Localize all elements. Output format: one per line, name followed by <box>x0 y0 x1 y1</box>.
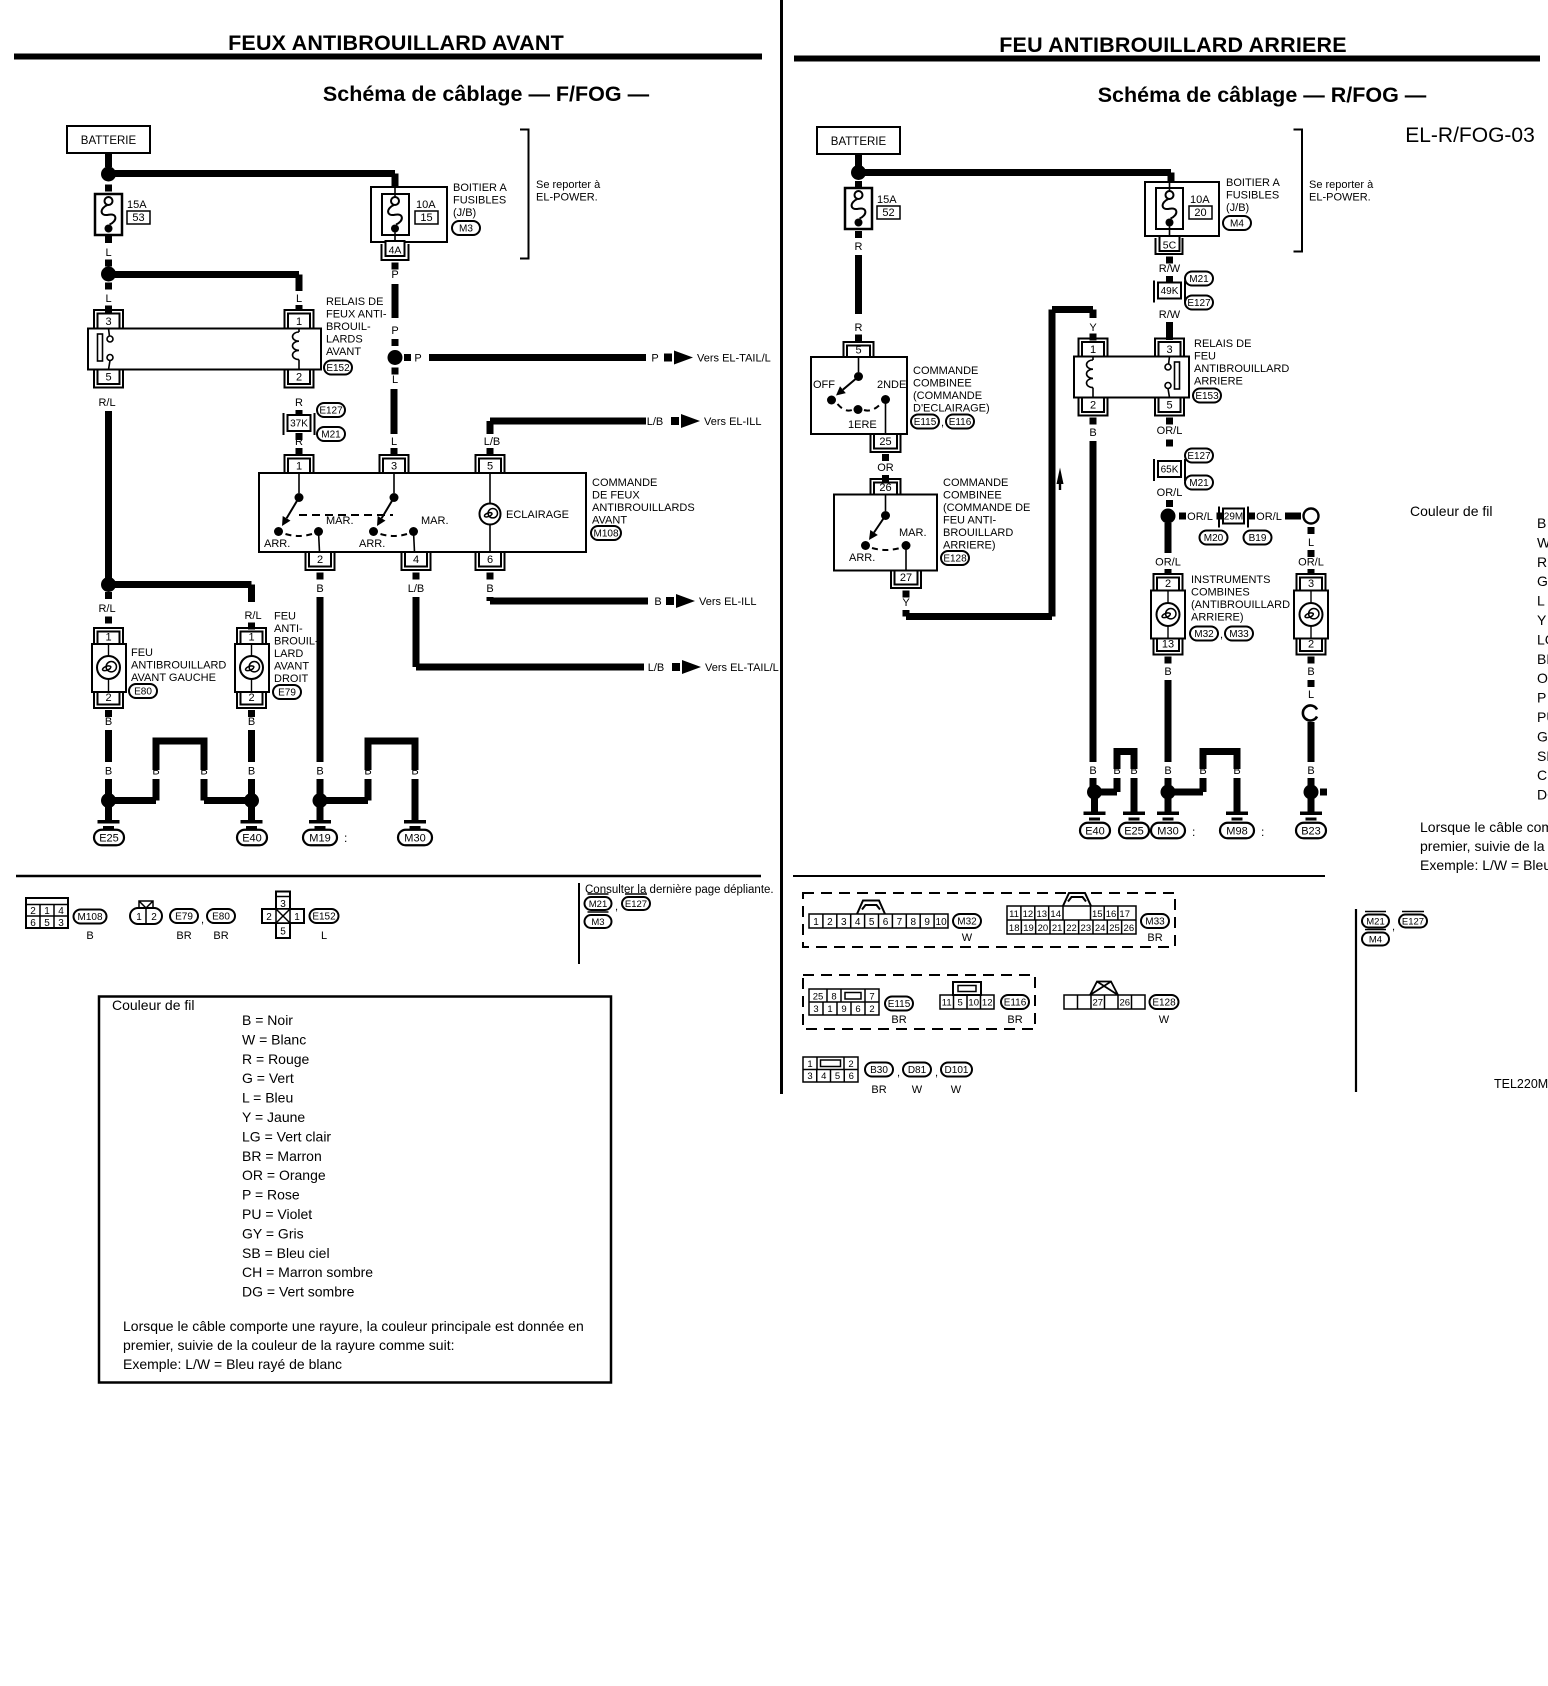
svg-text:15: 15 <box>420 212 432 224</box>
svg-text:M21: M21 <box>321 430 341 441</box>
svg-text:premier, suivie de la couleur: premier, suivie de la couleur de la ray <box>1420 838 1548 854</box>
svg-text:1: 1 <box>827 1004 832 1015</box>
svg-text:3: 3 <box>391 461 397 473</box>
svg-text:3: 3 <box>813 1004 818 1015</box>
svg-text:Schéma de câblage — F/FOG —: Schéma de câblage — F/FOG — <box>323 82 650 106</box>
svg-text:EL-POWER.: EL-POWER. <box>536 192 598 204</box>
svg-text:10: 10 <box>968 998 979 1009</box>
svg-text:2: 2 <box>848 1059 853 1070</box>
svg-text:M32: M32 <box>1194 629 1214 640</box>
svg-text:M108: M108 <box>593 529 618 540</box>
svg-text:11: 11 <box>942 998 952 1009</box>
ground B23 <box>1308 792 1315 812</box>
svg-text:P: P <box>391 269 398 281</box>
lamp E79 FEU ANTIBROUILLARD AVANT DROIT <box>237 628 266 644</box>
svg-text:8: 8 <box>911 917 917 928</box>
svg-text:FEU ANTI-: FEU ANTI- <box>943 515 997 527</box>
legend box Couleur de fil <box>99 997 611 1383</box>
svg-text:R/L: R/L <box>98 603 115 615</box>
svg-text:6: 6 <box>855 1004 860 1015</box>
svg-text:,: , <box>615 901 618 913</box>
svg-text:B: B <box>411 766 418 778</box>
svg-text:OR/L: OR/L <box>1155 557 1181 569</box>
connector view M32 <box>809 914 948 928</box>
connector pin 25 <box>871 434 901 452</box>
svg-text:DG = Vert sombre: DG = Vert sombre <box>242 1284 355 1300</box>
svg-text::: : <box>1261 825 1264 839</box>
svg-text:R/L: R/L <box>244 610 261 622</box>
svg-text:3: 3 <box>105 316 111 328</box>
page divider <box>780 0 783 1094</box>
svg-text:Exemple: L/W = Bleu rayé de bl: Exemple: L/W = Bleu rayé de blanc <box>123 1356 342 1372</box>
svg-text:1: 1 <box>813 917 819 928</box>
reference bracket right Se reporter a EL-POWER <box>1294 130 1303 252</box>
svg-text:15A: 15A <box>877 194 897 206</box>
svg-text:BROUIL-: BROUIL- <box>326 321 371 333</box>
connector view dashed box E115 E116 <box>803 975 1035 1029</box>
svg-text:R = Rouge: R = Rouge <box>242 1051 310 1067</box>
svg-text:Couleur de fil: Couleur de fil <box>1410 503 1493 519</box>
connector view E152 <box>276 892 290 939</box>
wire R/L to right lamp <box>115 581 252 588</box>
svg-text:B23: B23 <box>1301 825 1321 837</box>
svg-text:BOITIER A: BOITIER A <box>453 182 507 194</box>
svg-text:MAR.: MAR. <box>326 515 354 527</box>
svg-text:E79: E79 <box>278 688 296 699</box>
svg-text:CH =: CH = <box>1537 767 1548 783</box>
ground M30 right <box>1161 785 1176 800</box>
node battery junction right <box>851 165 866 180</box>
svg-text:5: 5 <box>855 345 861 357</box>
svg-text:ANTI-: ANTI- <box>274 623 303 635</box>
lamp cluster INSTRUMENTS COMBINES M32 M33 left bulb <box>1154 574 1183 591</box>
svg-text:29M: 29M <box>1224 512 1243 523</box>
svg-text:L = Bleu: L = Bleu <box>242 1090 293 1106</box>
separator rule right <box>793 875 1325 877</box>
connector view E128 <box>1064 995 1145 1009</box>
wire battery feed to fuse 10A <box>115 170 395 177</box>
svg-text:E127: E127 <box>1187 298 1211 309</box>
svg-text:FEU: FEU <box>131 647 153 659</box>
svg-text:26: 26 <box>1120 998 1131 1009</box>
svg-text:Exemple: L/W = Bleu rayé de bl: Exemple: L/W = Bleu rayé de blanc <box>1420 857 1548 873</box>
svg-text:COMMANDE: COMMANDE <box>943 477 1008 489</box>
svg-text:LG =: LG = <box>1537 631 1548 647</box>
svg-text:(COMMANDE: (COMMANDE <box>913 390 982 402</box>
svg-text:1: 1 <box>248 632 254 644</box>
svg-text:E115: E115 <box>914 417 937 428</box>
svg-text:B: B <box>86 930 93 942</box>
svg-text:COMMANDE: COMMANDE <box>913 365 978 377</box>
svg-text:L =: L = <box>1537 593 1548 609</box>
svg-text:OR/L: OR/L <box>1157 487 1183 499</box>
svg-text:14: 14 <box>1050 909 1061 920</box>
svg-text:2: 2 <box>1165 578 1171 590</box>
node P junction <box>388 350 403 365</box>
svg-text:R/W: R/W <box>1159 263 1181 275</box>
wire L OR/L down to right lamp pin 3 <box>1308 527 1315 534</box>
svg-text:TEL220M: TEL220M <box>1494 1077 1548 1091</box>
svg-text:16: 16 <box>1106 909 1117 920</box>
svg-text:BATTERIE: BATTERIE <box>81 135 137 147</box>
svg-text:10A: 10A <box>416 199 436 211</box>
node L junction <box>101 267 116 282</box>
battery B2 BATTERIE <box>817 127 900 154</box>
svg-text:(J/B): (J/B) <box>453 207 476 219</box>
svg-text:R =: R = <box>1537 554 1548 570</box>
svg-text:SB =: SB = <box>1537 748 1548 764</box>
svg-text:Y: Y <box>902 597 910 609</box>
svg-text:1ERE: 1ERE <box>848 419 877 431</box>
svg-text:B: B <box>316 766 323 778</box>
svg-text:,: , <box>935 1067 938 1079</box>
svg-text:M20: M20 <box>1204 533 1224 544</box>
wire ground bridge E40-E25 right <box>1098 789 1117 796</box>
svg-text:W: W <box>951 1084 962 1096</box>
svg-text:FEU ANTIBROUILLARD ARRIERE: FEU ANTIBROUILLARD ARRIERE <box>999 33 1347 57</box>
wire ground bridge E25-E40 <box>112 797 156 804</box>
svg-text:GY = Gris: GY = Gris <box>242 1225 304 1241</box>
svg-text:,: , <box>1220 629 1223 641</box>
svg-text:RELAIS DE: RELAIS DE <box>1194 338 1251 350</box>
connector 4A below J/B <box>382 244 409 260</box>
connector view dashed box M32 M33 <box>803 893 1175 947</box>
fuse F1 15A 53 <box>95 194 122 235</box>
svg-text:7: 7 <box>869 992 874 1003</box>
mechanical link dashed <box>299 514 393 516</box>
svg-text:CH = Marron sombre: CH = Marron sombre <box>242 1264 373 1280</box>
connector view M33 <box>1007 906 1136 934</box>
wire M108 pin2 B down to ground M19 <box>317 573 324 580</box>
svg-text:R: R <box>855 241 863 253</box>
reference bracket Se reporter a EL-POWER <box>520 130 529 259</box>
svg-text:1: 1 <box>44 906 50 917</box>
separator rule left <box>16 875 761 878</box>
svg-text:9: 9 <box>924 917 930 928</box>
wire OR/L to 29M and B19 connector <box>1179 513 1186 520</box>
svg-text:B: B <box>654 596 661 608</box>
switch S3 COMMANDE FEU ANTIBROUILLARD ARRIERE E128 <box>834 495 937 571</box>
svg-text:AVANT: AVANT <box>274 661 309 673</box>
svg-text:ARRIERE): ARRIERE) <box>943 540 996 552</box>
svg-text:B: B <box>1089 765 1096 777</box>
svg-text:3: 3 <box>1166 344 1172 356</box>
switch lever A <box>298 473 300 493</box>
svg-text:5: 5 <box>869 917 875 928</box>
wire ground bridge M30-M98 right <box>1172 789 1203 796</box>
svg-text:E127: E127 <box>1187 451 1211 462</box>
svg-text:2: 2 <box>317 554 323 566</box>
svg-text:OR/L: OR/L <box>1157 425 1183 437</box>
svg-text:M21: M21 <box>589 899 607 910</box>
svg-text:ANTIBROUILLARDS: ANTIBROUILLARDS <box>592 502 695 514</box>
svg-text:COMBINEE: COMBINEE <box>943 490 1002 502</box>
wire ground bridge M19-M30 <box>323 797 368 804</box>
svg-text:2: 2 <box>827 917 833 928</box>
svg-text:E115: E115 <box>888 999 911 1010</box>
svg-text:R/L: R/L <box>98 397 115 409</box>
svg-text:E127: E127 <box>1402 916 1424 927</box>
wire relay pin2 B down to ground E40 right <box>1090 418 1097 425</box>
svg-text:B: B <box>1233 765 1240 777</box>
svg-text:DG =: DG = <box>1537 787 1548 803</box>
svg-text:3: 3 <box>807 1071 812 1082</box>
wire right lamp pin2 B L to connector and ground B23 <box>1308 657 1315 664</box>
wire junction to fuse 15A <box>105 185 112 192</box>
svg-text:21: 21 <box>1052 923 1063 934</box>
lamp E80 FEU ANTIBROUILLARD AVANT GAUCHE <box>94 628 123 644</box>
svg-text:17: 17 <box>1119 909 1130 920</box>
svg-text:AVANT GAUCHE: AVANT GAUCHE <box>131 672 216 684</box>
svg-text:2: 2 <box>248 692 254 704</box>
svg-text:M4: M4 <box>1369 934 1382 945</box>
svg-text:E25: E25 <box>99 832 119 844</box>
svg-text::: : <box>1192 825 1195 839</box>
svg-text:INSTRUMENTS: INSTRUMENTS <box>1191 574 1270 586</box>
svg-text:M21: M21 <box>1189 478 1209 489</box>
svg-text:FEUX ANTIBROUILLARD AVANT: FEUX ANTIBROUILLARD AVANT <box>228 31 564 55</box>
wire pin25 OR to pin26 <box>882 454 889 461</box>
svg-text:2: 2 <box>30 906 36 917</box>
svg-text:B: B <box>1164 765 1171 777</box>
svg-text:LARDS: LARDS <box>326 334 363 346</box>
wire junction to fuse 15A right <box>855 181 862 188</box>
svg-text:7: 7 <box>897 917 903 928</box>
ground E25 <box>101 793 116 808</box>
svg-text:L: L <box>105 293 111 305</box>
svg-text:M3: M3 <box>591 917 604 928</box>
svg-text:E40: E40 <box>1085 825 1105 837</box>
svg-text:Lorsque le câble comporte une: Lorsque le câble comporte une rayure <box>1420 819 1548 835</box>
svg-text:R: R <box>295 397 303 409</box>
svg-text:W: W <box>912 1084 923 1096</box>
svg-text:E127: E127 <box>319 406 343 417</box>
svg-text:B: B <box>486 583 493 595</box>
fuse F3 15A 52 <box>845 188 872 229</box>
svg-text:1: 1 <box>296 461 302 473</box>
svg-text:Y: Y <box>1089 322 1097 334</box>
svg-text:25: 25 <box>813 992 824 1003</box>
svg-text:(COMMANDE DE: (COMMANDE DE <box>943 502 1030 514</box>
svg-text:BR = Marron: BR = Marron <box>242 1148 322 1164</box>
svg-text:FEU: FEU <box>274 611 296 623</box>
svg-text:ARR.: ARR. <box>359 538 385 550</box>
svg-text:SB = Bleu ciel: SB = Bleu ciel <box>242 1245 330 1261</box>
svg-text:R: R <box>295 436 303 448</box>
svg-text:E128: E128 <box>1152 998 1176 1009</box>
svg-text:BR =: BR = <box>1537 651 1548 667</box>
svg-text:M33: M33 <box>1229 629 1249 640</box>
wire 4A to P junction, labels P <box>392 263 399 270</box>
wire M108 pin6 B to EL-ILL arrow <box>487 573 494 580</box>
svg-text:E40: E40 <box>242 832 262 844</box>
wire battery to junction <box>855 154 862 166</box>
svg-text:24: 24 <box>1095 923 1106 934</box>
wire junction down to lamp M32 pin 2 <box>1165 523 1172 553</box>
svg-text:2: 2 <box>296 372 302 384</box>
svg-text:25: 25 <box>1109 923 1120 934</box>
svg-text:BR: BR <box>891 1014 906 1026</box>
wire M108 pin4 L/B to EL-TAIL/L arrow <box>413 573 420 580</box>
svg-text:ANTIBROUILLARD: ANTIBROUILLARD <box>131 660 226 672</box>
wire Y from pin27 looping up to relay pin 1 <box>903 591 910 598</box>
wire P branch to EL-TAIL/L arrow <box>404 354 411 361</box>
svg-text:B: B <box>248 716 255 728</box>
svg-text:LARD: LARD <box>274 648 303 660</box>
svg-text:65K: 65K <box>1161 465 1179 476</box>
svg-text:EL-POWER.: EL-POWER. <box>1309 192 1371 204</box>
svg-text:5: 5 <box>835 1071 840 1082</box>
svg-text:OR = Orange: OR = Orange <box>242 1167 326 1183</box>
wire fuse to junction 2, label L <box>105 236 112 243</box>
node battery junction <box>101 167 116 182</box>
connector pin 27 <box>891 571 921 589</box>
svg-text:BR: BR <box>1007 1014 1022 1026</box>
svg-text:20: 20 <box>1038 923 1049 934</box>
wire E79 pin2 B to ground E40 <box>248 710 255 717</box>
fuse box J/B right BOITIER A FUSIBLES (M4) <box>1145 182 1219 236</box>
svg-text:P: P <box>651 353 658 365</box>
svg-text:13: 13 <box>1162 639 1174 651</box>
svg-text::: : <box>344 831 347 845</box>
svg-text:3: 3 <box>58 918 64 929</box>
svg-text:1: 1 <box>136 912 142 923</box>
svg-text:L: L <box>296 293 302 305</box>
svg-text:E128: E128 <box>943 554 967 565</box>
svg-text:L/B: L/B <box>484 436 501 448</box>
svg-text:COMMANDE: COMMANDE <box>592 477 657 489</box>
svg-text:E79: E79 <box>175 912 193 923</box>
connector view E115 <box>809 989 879 1015</box>
svg-text:ARR.: ARR. <box>264 538 290 550</box>
connector 49K <box>1185 272 1213 286</box>
svg-text:10: 10 <box>936 917 948 928</box>
svg-text:B =: B = <box>1537 515 1548 531</box>
svg-text:EL-R/FOG-03: EL-R/FOG-03 <box>1405 124 1535 147</box>
svg-text:6: 6 <box>849 1071 854 1082</box>
wire P junction to switch pin 3, labels L <box>392 368 399 375</box>
svg-text:E25: E25 <box>1124 825 1144 837</box>
svg-text:COMBINES: COMBINES <box>1191 587 1250 599</box>
svg-text:5C: 5C <box>1163 240 1177 252</box>
svg-text:M3: M3 <box>459 224 473 235</box>
svg-text:L: L <box>392 374 398 386</box>
svg-text:L/B: L/B <box>647 416 664 428</box>
connector 5C below J/B right <box>1156 238 1183 254</box>
svg-text:M21: M21 <box>1189 274 1209 285</box>
svg-text:BROUILLARD: BROUILLARD <box>943 527 1013 539</box>
svg-text:L: L <box>105 247 111 259</box>
svg-text:ARRIERE: ARRIERE <box>1194 376 1243 388</box>
svg-text:G = Vert: G = Vert <box>242 1070 294 1086</box>
svg-text:19: 19 <box>1023 923 1034 934</box>
svg-text:1: 1 <box>807 1059 812 1070</box>
svg-text:6: 6 <box>487 554 493 566</box>
svg-text:OR/L: OR/L <box>1256 511 1282 523</box>
svg-text:12: 12 <box>1023 909 1034 920</box>
svg-text:OR/L: OR/L <box>1298 557 1324 569</box>
svg-text:W =: W = <box>1537 534 1548 550</box>
ground M19 <box>313 793 328 808</box>
svg-text:2: 2 <box>869 1004 874 1015</box>
svg-text:37K: 37K <box>290 419 308 430</box>
svg-text:(J/B): (J/B) <box>1226 202 1249 214</box>
svg-text:M33: M33 <box>1145 917 1165 928</box>
svg-text:5: 5 <box>44 918 50 929</box>
svg-text:BROUIL-: BROUIL- <box>274 636 319 648</box>
svg-text:BATTERIE: BATTERIE <box>831 136 887 148</box>
svg-text:26: 26 <box>879 482 891 494</box>
svg-text:B: B <box>1307 666 1314 678</box>
svg-text:DE FEUX: DE FEUX <box>592 490 640 502</box>
svg-text:26: 26 <box>1124 923 1135 934</box>
wire L junction to relay pin 1 <box>115 271 299 278</box>
svg-text:Y =: Y = <box>1537 612 1548 628</box>
svg-text:6: 6 <box>30 918 36 929</box>
svg-text:G =: G = <box>1537 573 1548 589</box>
connector 29M <box>1219 507 1248 528</box>
svg-text:Schéma de câblage — R/FOG —: Schéma de câblage — R/FOG — <box>1098 83 1427 107</box>
svg-text:27: 27 <box>1093 998 1104 1009</box>
svg-text:B: B <box>105 716 112 728</box>
node B23 junction <box>1304 785 1319 800</box>
wire E80 pin2 B to ground E25 <box>105 710 112 717</box>
connector view M108 <box>26 898 68 928</box>
svg-text:27: 27 <box>900 572 912 584</box>
svg-text:Vers EL-ILL: Vers EL-ILL <box>704 416 761 428</box>
svg-text:P = Rose: P = Rose <box>242 1187 300 1203</box>
svg-text:10A: 10A <box>1190 194 1210 206</box>
svg-text:,: , <box>897 1067 900 1079</box>
svg-text:MAR.: MAR. <box>421 515 449 527</box>
svg-text:Consulter la dernière page dép: Consulter la dernière page dépliante. <box>585 884 774 896</box>
svg-text:,: , <box>1392 921 1395 933</box>
svg-text:premier, suivie de la couleur: premier, suivie de la couleur de la rayu… <box>123 1337 454 1353</box>
svg-text:13: 13 <box>1037 909 1048 920</box>
lamp ECLAIRAGE inside M108 <box>489 473 491 504</box>
svg-text:2: 2 <box>1308 639 1314 651</box>
svg-text:Vers EL-TAIL/L: Vers EL-TAIL/L <box>697 353 771 365</box>
svg-text:ARRIERE): ARRIERE) <box>1191 612 1244 624</box>
svg-text:RELAIS DE: RELAIS DE <box>326 296 383 308</box>
fuse box J/B BOITIER A FUSIBLES (M3) <box>371 187 447 242</box>
svg-text:FEU: FEU <box>1194 351 1216 363</box>
ground E40 <box>244 793 259 808</box>
svg-text:M108: M108 <box>77 912 102 923</box>
svg-text:4: 4 <box>413 554 419 566</box>
wire L junction down to relay pin 3 <box>105 283 112 290</box>
svg-text:AVANT: AVANT <box>326 346 361 358</box>
svg-text:B: B <box>1089 427 1096 439</box>
svg-text:OFF: OFF <box>813 379 835 391</box>
svg-text:B30: B30 <box>870 1065 888 1076</box>
svg-text:15A: 15A <box>127 199 147 211</box>
svg-text:B: B <box>1130 765 1137 777</box>
svg-text:D81: D81 <box>908 1065 927 1076</box>
svg-text:1: 1 <box>296 316 302 328</box>
svg-text:L: L <box>321 930 327 942</box>
svg-text:M98: M98 <box>1226 825 1247 837</box>
svg-text:22: 22 <box>1066 923 1077 934</box>
svg-text:2: 2 <box>105 692 111 704</box>
svg-text:BOITIER A: BOITIER A <box>1226 177 1280 189</box>
svg-text:M30: M30 <box>1157 825 1178 837</box>
switch S1 COMMANDE DE FEUX ANTIBROUILLARDS AVANT M108 <box>285 455 314 473</box>
svg-text:,: , <box>941 417 944 429</box>
svg-text:B: B <box>105 766 112 778</box>
svg-text:OR/L: OR/L <box>1187 511 1213 523</box>
svg-text:3: 3 <box>841 917 847 928</box>
